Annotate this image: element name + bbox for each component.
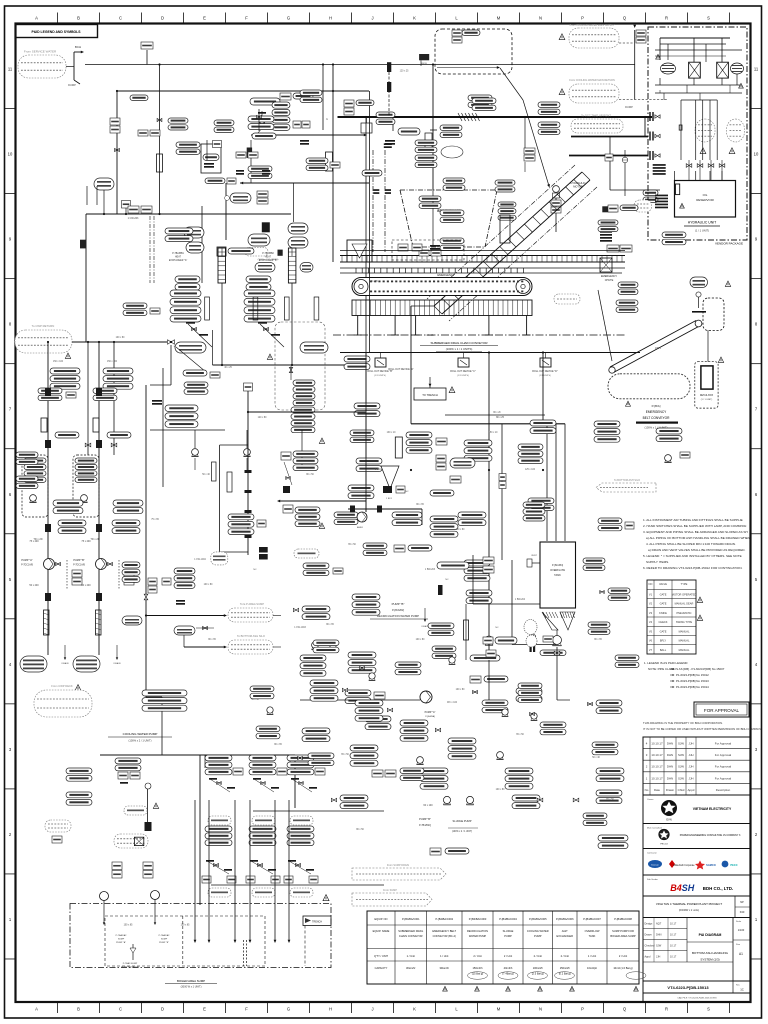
tank drop line bbox=[556, 647, 558, 700]
svg-text:SUPPLY ITEMS.: SUPPLY ITEMS. bbox=[646, 560, 669, 564]
flange x531 bbox=[530, 646, 532, 652]
svg-text:P-7DC1A/B: P-7DC1A/B bbox=[73, 564, 85, 567]
svg-text:EMERGENCY: EMERGENCY bbox=[646, 410, 667, 414]
nc cluster x400 bbox=[396, 486, 405, 493]
x489 connect bbox=[488, 660, 490, 700]
b-hopper stacks left bbox=[419, 196, 441, 201]
svg-text:VENDOR PACKAGE: VENDOR PACKAGE bbox=[715, 242, 743, 246]
strainer c1 bbox=[41, 418, 47, 432]
svg-text:PNEUMATIC: PNEUMATIC bbox=[676, 611, 691, 615]
ul extra tags bbox=[138, 130, 148, 136]
valve on tank drop bbox=[554, 651, 560, 655]
cluster x288 y223 bbox=[288, 223, 308, 234]
svg-text:EVN: EVN bbox=[666, 818, 671, 822]
mid cluster e4 bbox=[348, 652, 376, 658]
svg-text:EQUIP. NAME: EQUIP. NAME bbox=[373, 929, 390, 933]
junction dots bbox=[158, 63, 160, 65]
sump tri bbox=[323, 895, 329, 901]
left station verticals bbox=[87, 342, 89, 455]
svg-text:180 1: 180 1 bbox=[655, 347, 662, 350]
svg-text:NC: NC bbox=[495, 627, 499, 629]
svg-text:50 x 200: 50 x 200 bbox=[29, 584, 39, 587]
detail box bbox=[695, 362, 718, 408]
svg-text:P-[B4/BA/C008: P-[B4/BA/C008 bbox=[614, 917, 632, 921]
small boxes by diagonal bbox=[524, 148, 535, 154]
cascade cluster f8 bbox=[448, 738, 476, 744]
sdcc legs bbox=[357, 316, 359, 336]
header y183 bbox=[240, 182, 243, 185]
svg-text:EXCHANGER: EXCHANGER bbox=[557, 934, 574, 938]
recirc capsule low bbox=[122, 616, 142, 625]
svg-text:From SUMP DRAIN: From SUMP DRAIN bbox=[387, 864, 409, 867]
hpu valve row bbox=[686, 164, 692, 168]
b-x433 tick bbox=[430, 129, 437, 131]
accumulator cluster 2 bbox=[727, 119, 745, 142]
train1 top chain bbox=[209, 778, 217, 780]
loop capsule bbox=[211, 552, 228, 565]
margin grid ticks bottom bbox=[57, 1002, 59, 1013]
svg-text:(1/1 UNITS): (1/1 UNITS) bbox=[374, 375, 386, 377]
hx B top capsule bbox=[300, 263, 313, 273]
manifold x248 bbox=[247, 383, 249, 555]
center cluster x420 y440 bbox=[406, 432, 432, 438]
svg-text:CHECK: CHECK bbox=[658, 620, 667, 624]
svg-text:M: M bbox=[497, 1007, 501, 1012]
svg-text:3. EQUIPMENT AND PIPING SHALL: 3. EQUIPMENT AND PIPING SHALL BE ARRANGE… bbox=[643, 530, 748, 534]
hx column B bbox=[288, 248, 296, 283]
suction capsule B bbox=[73, 656, 100, 672]
cascade cluster f3 bbox=[458, 512, 486, 518]
b-boa capsule bbox=[398, 128, 420, 135]
svg-text:G: G bbox=[287, 1007, 290, 1012]
mid cluster e3 bbox=[300, 655, 326, 661]
c-left edge stacks bbox=[16, 452, 38, 458]
mid cluster e5 bbox=[345, 690, 371, 696]
svg-text:OVERFLOW: OVERFLOW bbox=[585, 929, 600, 933]
svg-text:A: A bbox=[35, 16, 38, 21]
svg-text:TRENCH: TRENCH bbox=[312, 921, 322, 924]
svg-text:RESERVOIR: RESERVOIR bbox=[696, 198, 714, 202]
svg-text:DRAIN: DRAIN bbox=[62, 662, 69, 665]
bv tags bbox=[436, 455, 446, 462]
sump inner box bbox=[105, 916, 265, 966]
cascade pumps bbox=[417, 757, 424, 764]
svg-text:SJW: SJW bbox=[678, 765, 684, 769]
inline filter x159 bbox=[157, 154, 163, 172]
svg-text:30ton/hr: 30ton/hr bbox=[439, 966, 449, 970]
ul dark marks bbox=[236, 170, 244, 172]
svg-text:65 x 50: 65 x 50 bbox=[516, 734, 524, 736]
svg-text:JJH: JJH bbox=[689, 765, 694, 769]
left riser x86 bbox=[85, 214, 87, 342]
svg-text:P1-6023-P[DB] No 15012: P1-6023-P[DB] No 15012 bbox=[676, 673, 709, 677]
svg-text:V2: V2 bbox=[649, 602, 653, 606]
warning triangle supply bbox=[559, 34, 565, 40]
svg-text:R: R bbox=[665, 1007, 668, 1012]
train dark valves upper bbox=[45, 524, 51, 532]
svg-text:E: E bbox=[203, 16, 206, 21]
ul cluster x137 y95 bbox=[130, 95, 148, 101]
svg-text:PUMP: PUMP bbox=[534, 934, 542, 938]
overflow tank bbox=[540, 542, 576, 608]
svg-text:VT4-6223-P[DB-15013: VT4-6223-P[DB-15013 bbox=[667, 985, 709, 990]
right caps x518 bbox=[518, 444, 543, 450]
svg-text:HYDRAULIC: HYDRAULIC bbox=[571, 181, 586, 185]
bypass boxes bbox=[72, 570, 82, 577]
left riser x117 bbox=[116, 91, 118, 214]
c-pumps y452 lines bbox=[194, 458, 196, 470]
from-cooling-return cloud bbox=[569, 84, 619, 103]
svg-text:P-7BA1/A2: P-7BA1/A2 bbox=[116, 934, 128, 937]
svg-text:100 x 80: 100 x 80 bbox=[496, 789, 506, 791]
table warning tri bbox=[697, 597, 702, 602]
svg-text:V1: V1 bbox=[649, 592, 653, 596]
svg-text:C: C bbox=[119, 1007, 122, 1012]
aux header y415 bbox=[445, 414, 545, 416]
train2 bottom capsule bbox=[252, 888, 275, 897]
trunk corner risers bbox=[365, 117, 367, 512]
svg-text:10.10.17: 10.10.17 bbox=[651, 765, 663, 769]
drain arrow x425 bbox=[424, 608, 426, 620]
svg-text:DHN: DHN bbox=[667, 765, 673, 769]
train3 valve chain bbox=[288, 860, 296, 862]
sump pump A bbox=[100, 892, 109, 901]
svg-text:6. REFER TO DRAWING VT4-6223-P: 6. REFER TO DRAWING VT4-6223-P[DB-15012 … bbox=[643, 566, 743, 570]
train2 dashed capsule bbox=[252, 816, 275, 825]
cascade cluster f4 bbox=[394, 545, 405, 552]
c-cluster x40 y390 bbox=[38, 388, 62, 394]
svg-text:80 x 50: 80 x 50 bbox=[306, 474, 314, 476]
b-riob tag bbox=[419, 54, 429, 60]
scraper structure top rails bbox=[340, 255, 625, 257]
station c1 tags bbox=[50, 368, 80, 374]
cluster x585 y560 bbox=[583, 558, 605, 563]
trunk drop x171 bbox=[170, 345, 172, 385]
svg-text:(1 / 1 UNIT): (1 / 1 UNIT) bbox=[695, 229, 709, 233]
svg-text:10.10.17: 10.10.17 bbox=[651, 742, 663, 746]
svg-text:SUMP: SUMP bbox=[161, 939, 168, 941]
svg-text:BFLY: BFLY bbox=[660, 639, 667, 643]
svg-text:From COOLING WATER MAIN SUPPLY: From COOLING WATER MAIN SUPPLY bbox=[570, 24, 615, 27]
cluster x485 y637 bbox=[483, 637, 493, 644]
svg-text:BELT CONVEYOR: BELT CONVEYOR bbox=[643, 416, 671, 420]
module A chain bbox=[284, 462, 292, 485]
sump inner divider bbox=[182, 916, 184, 966]
svg-text:P-[B/A/B4]: P-[B/A/B4] bbox=[552, 564, 563, 567]
train3 top chain bbox=[291, 778, 299, 780]
svg-text:K30: K30 bbox=[740, 910, 745, 914]
svg-text:V4: V4 bbox=[649, 620, 653, 624]
svg-text:40m3/h: 40m3/h bbox=[504, 966, 513, 970]
ep-sump cloud bbox=[228, 608, 273, 622]
sump weir bbox=[243, 940, 245, 966]
accumulator cluster 1 bbox=[695, 119, 715, 142]
misc cluster m6 bbox=[472, 98, 496, 104]
svg-text:CAPACITY: CAPACITY bbox=[375, 966, 388, 970]
svg-text:JJH: JJH bbox=[656, 956, 661, 959]
hpu bottom tag stack bbox=[600, 228, 612, 230]
contractor logos block bbox=[643, 849, 751, 876]
table ref triangles bbox=[443, 986, 448, 991]
hydraulic motor bbox=[553, 186, 560, 193]
from-cooling-supply cloud bbox=[569, 28, 619, 48]
cluster x252 y688 bbox=[250, 686, 274, 692]
svg-text:RECIRCULATION WATER PUMP: RECIRCULATION WATER PUMP bbox=[377, 614, 419, 618]
svg-text:1 BV1: 1 BV1 bbox=[386, 498, 393, 500]
svg-text:2 / Unit: 2 / Unit bbox=[561, 954, 569, 958]
svg-text:N: N bbox=[539, 16, 542, 21]
sdcc belt bbox=[352, 278, 532, 296]
svg-text:100 x 65: 100 x 65 bbox=[124, 925, 134, 927]
left train caps y435 bbox=[55, 432, 79, 438]
cwp-return cloud bbox=[15, 330, 72, 353]
station bottom tags 1 bbox=[58, 520, 86, 526]
left bottom pi tags bbox=[152, 400, 162, 402]
svg-text:150m3/h: 150m3/h bbox=[472, 966, 483, 970]
svg-text:MANUAL: MANUAL bbox=[679, 639, 690, 643]
dark valve x265 bbox=[262, 222, 270, 232]
trunk x333 full bbox=[332, 65, 334, 96]
train strainer A bbox=[44, 610, 50, 635]
svg-text:VINH TAN 4 THERMAL POWER PLANT: VINH TAN 4 THERMAL POWER PLANT PROJECT bbox=[656, 902, 722, 906]
tank discharge pump bbox=[553, 636, 562, 645]
svg-text:60 x 100: 60 x 100 bbox=[423, 804, 433, 807]
train1 top stack bbox=[205, 755, 232, 761]
svg-text:PUMP "B": PUMP "B" bbox=[392, 602, 405, 606]
cluster x258 y728 bbox=[256, 726, 280, 732]
hx B bottom capsule bbox=[300, 342, 328, 353]
svg-text:(1/1 UNITS): (1/1 UNITS) bbox=[457, 375, 469, 377]
svg-text:Chkd: Chkd bbox=[678, 788, 685, 792]
svg-text:EMERGENCY BELT: EMERGENCY BELT bbox=[432, 929, 456, 933]
bdh block bbox=[643, 875, 751, 896]
a-cluster x130 y208 bbox=[128, 206, 139, 213]
ebc head pulley bbox=[695, 320, 702, 327]
svg-text:From SERVICE WATER: From SERVICE WATER bbox=[24, 50, 57, 54]
svg-text:P-[B4/BA/C005: P-[B4/BA/C005 bbox=[529, 917, 547, 921]
train3 mid stack bbox=[287, 826, 314, 832]
ebc head mount bbox=[692, 311, 706, 313]
cap x365 y170 bbox=[362, 170, 382, 176]
hx top rect bbox=[217, 247, 226, 256]
hx column A bbox=[218, 248, 226, 283]
hx B left stack bbox=[246, 276, 271, 283]
svg-text:Scale: Scale bbox=[736, 921, 742, 923]
svg-text:Appd: Appd bbox=[688, 788, 695, 792]
trench box bbox=[303, 916, 331, 926]
d-cluster x658 y428 bbox=[656, 428, 682, 434]
f-tank drop join bbox=[557, 699, 570, 701]
svg-text:V3: V3 bbox=[649, 611, 653, 615]
warning tri trains bbox=[75, 685, 81, 691]
train3 dashed capsule bbox=[290, 816, 313, 825]
svg-text:MANUAL: MANUAL bbox=[679, 648, 690, 652]
svg-text:10.17: 10.17 bbox=[670, 956, 677, 959]
svg-text:10.17: 10.17 bbox=[670, 934, 677, 937]
sump mixer box bbox=[134, 837, 143, 845]
cascade extra clusters bbox=[313, 640, 339, 646]
svg-text:1/100: 1/100 bbox=[738, 928, 745, 932]
ul extra caps x220 bbox=[214, 120, 234, 126]
cascade extra valves bbox=[360, 666, 365, 669]
cluster x600 y700 bbox=[596, 700, 622, 706]
instrument panel box bbox=[201, 144, 221, 173]
hx left bottom extra stack bbox=[184, 382, 208, 388]
svg-text:150m3/h: 150m3/h bbox=[560, 966, 571, 970]
svg-text:(600MW x 2 units): (600MW x 2 units) bbox=[679, 909, 699, 912]
acc triangles bbox=[700, 148, 706, 154]
svg-text:THIS DRAWING IS THE PROPERTY O: THIS DRAWING IS THE PROPERTY OF BDH CORP… bbox=[643, 721, 723, 725]
svg-text:Appd: Appd bbox=[645, 956, 651, 959]
svg-text:(3000 W x 1 UNIT): (3000 W x 1 UNIT) bbox=[181, 986, 202, 989]
train2 valve chain bbox=[250, 860, 258, 862]
svg-text:HEAT: HEAT bbox=[175, 256, 182, 259]
hpu pump 1 bbox=[661, 63, 676, 74]
svg-text:D: D bbox=[161, 16, 164, 21]
hx B valve chain bbox=[258, 322, 267, 324]
svg-text:2 / Unit: 2 / Unit bbox=[534, 954, 542, 958]
f-cluster x520 y685 bbox=[518, 683, 542, 689]
legend under table bbox=[644, 661, 725, 689]
header y214 bbox=[86, 213, 291, 215]
main service water line bbox=[85, 64, 635, 66]
svg-text:80 x 65: 80 x 65 bbox=[416, 504, 424, 506]
cascade valves bbox=[342, 688, 347, 691]
svg-text:PUMP: PUMP bbox=[504, 934, 512, 938]
ul cluster x210 y180 bbox=[205, 178, 225, 184]
svg-text:P&I DIAGRAM: P&I DIAGRAM bbox=[699, 933, 722, 937]
svg-text:MANUAL: MANUAL bbox=[679, 629, 690, 633]
svg-text:SUMP: SUMP bbox=[118, 939, 125, 941]
dashed capsule x246 y248 bbox=[245, 248, 268, 257]
dark pair x259 bbox=[259, 547, 268, 553]
svg-text:ROLL OUT DEVICE "D": ROLL OUT DEVICE "D" bbox=[532, 370, 558, 373]
gate riser cluster bbox=[644, 117, 646, 137]
svg-text:P-[B4/BA/C006: P-[B4/BA/C006 bbox=[556, 917, 574, 921]
svg-text:10.17: 10.17 bbox=[670, 945, 677, 948]
a-small lines left bbox=[96, 186, 98, 205]
svg-text:(100% x 1 / 1 UNITS): (100% x 1 / 1 UNITS) bbox=[446, 347, 473, 351]
svg-text:2. HAND SWITCHES SHALL BE SUPP: 2. HAND SWITCHES SHALL BE SUPPLIED WITH … bbox=[643, 524, 746, 528]
cluster a1 capsule bbox=[250, 98, 280, 105]
svg-text:BOILER AREA SUMP: BOILER AREA SUMP bbox=[610, 934, 635, 938]
svg-text:To E.P AREA SUMP: To E.P AREA SUMP bbox=[240, 602, 264, 606]
station bottom tags 2 bbox=[112, 520, 140, 526]
e-cluster x336 y514 bbox=[334, 512, 358, 518]
y183 drop x293 bbox=[293, 183, 295, 222]
sdcc right caps reposition bbox=[616, 300, 638, 305]
sump station riser bbox=[145, 783, 151, 789]
cooler 1 bbox=[689, 62, 701, 78]
strainer c2 bbox=[93, 418, 99, 432]
train2 mid stack bbox=[249, 826, 276, 832]
future arrow inside bbox=[437, 67, 498, 69]
header y412 bbox=[248, 411, 366, 413]
svg-text:COOLING WATER PUMP: COOLING WATER PUMP bbox=[123, 732, 158, 736]
suction capsule A bbox=[20, 656, 47, 672]
svg-text:DRAIN: DRAIN bbox=[114, 662, 121, 665]
svg-text:From SUMP: From SUMP bbox=[383, 889, 397, 892]
svg-text:VIETNAM ELECTRICITY: VIETNAM ELECTRICITY bbox=[693, 807, 732, 811]
svg-text:For Approval: For Approval bbox=[715, 742, 732, 746]
y855 cluster bbox=[430, 848, 441, 855]
mid pumps bbox=[312, 642, 319, 649]
svg-text:S: S bbox=[707, 16, 710, 21]
svg-text:80 x 65: 80 x 65 bbox=[274, 744, 282, 746]
bottom cluster g3 bbox=[505, 768, 533, 774]
g-left edge cloud bbox=[45, 820, 71, 832]
a-valve v259 bbox=[258, 109, 260, 131]
ul extra row1 bbox=[176, 142, 200, 147]
cw pump header bbox=[100, 754, 295, 756]
svg-text:P&ID LEGEND AND SYMBOLS: P&ID LEGEND AND SYMBOLS bbox=[31, 30, 81, 34]
svg-text:Design: Design bbox=[645, 923, 653, 926]
svg-text:CHAIN CONVEYOR: CHAIN CONVEYOR bbox=[399, 934, 423, 938]
cascade cluster f2 bbox=[430, 516, 458, 522]
misc cluster m5 bbox=[440, 125, 462, 131]
svg-text:40 x 2h: 40 x 2h bbox=[426, 335, 434, 337]
vertical x393 bbox=[392, 117, 394, 131]
right riser x369 bbox=[369, 91, 371, 352]
cwp deck cloud bbox=[34, 690, 92, 717]
svg-text:ROLL OUT DEVICE "A": ROLL OUT DEVICE "A" bbox=[388, 368, 413, 371]
svg-text:JJH: JJH bbox=[689, 776, 694, 780]
bottom cluster g2 bbox=[420, 768, 448, 774]
tank area inst bbox=[530, 634, 536, 640]
chute dashdot rails bbox=[427, 165, 575, 299]
title lower block bbox=[643, 918, 751, 1003]
svg-text:2 / Unit: 2 / Unit bbox=[504, 954, 512, 958]
mid cluster e6 bbox=[302, 728, 330, 734]
silo cloud bbox=[228, 640, 273, 654]
svg-text:NC: NC bbox=[445, 579, 449, 581]
cluster x228 y514 bbox=[228, 514, 254, 520]
train3 top stack bbox=[287, 755, 314, 761]
a-cluster x228 y250 bbox=[228, 248, 254, 254]
cwp trunk bbox=[72, 341, 167, 343]
svg-text:65 x 50: 65 x 50 bbox=[341, 754, 349, 756]
svg-text:For Approval: For Approval bbox=[715, 776, 732, 780]
svg-text:SWING TYPE: SWING TYPE bbox=[676, 620, 693, 624]
station c2 tags bbox=[103, 368, 133, 374]
svg-text:1C: 1C bbox=[740, 988, 744, 992]
svg-text:1 CW-203: 1 CW-203 bbox=[128, 217, 139, 220]
mid cluster e1 bbox=[302, 606, 330, 612]
recirc cluster 2 bbox=[464, 560, 490, 566]
cluster x600 y520 bbox=[598, 518, 622, 524]
pump b circle bbox=[357, 512, 367, 522]
recirc cluster 3 bbox=[466, 590, 492, 596]
tag 1kb x126 bbox=[122, 201, 131, 209]
bottom mid cluster g7 bbox=[596, 790, 622, 796]
e-cluster x310 y755 bbox=[308, 753, 334, 759]
train1 dashed capsule bbox=[208, 816, 231, 825]
mid cluster e8 bbox=[365, 716, 391, 722]
svg-text:BOILER AREA SUMP: BOILER AREA SUMP bbox=[177, 979, 205, 983]
warning triangle return bbox=[559, 89, 565, 95]
svg-text:80 x 65: 80 x 65 bbox=[594, 639, 602, 641]
svg-text:GATE: GATE bbox=[660, 592, 667, 596]
roll-out device boxes bbox=[375, 358, 386, 367]
flange set 2 bbox=[649, 132, 651, 141]
psv cluster bbox=[376, 112, 395, 118]
svg-text:10.17: 10.17 bbox=[670, 923, 677, 926]
svg-text:N: N bbox=[539, 1007, 542, 1012]
recirc branch column bbox=[275, 322, 325, 410]
scraper left end box bbox=[347, 240, 372, 262]
tank funnel hatch bbox=[560, 612, 562, 618]
gbd capsule bbox=[450, 458, 475, 468]
